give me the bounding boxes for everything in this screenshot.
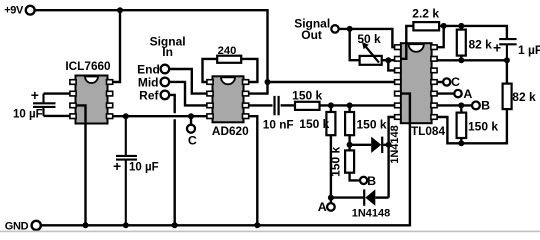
label U1 name ICL7660 (65, 59, 111, 73)
Mid terminal (161, 78, 170, 87)
Signal Out terminal (331, 25, 338, 32)
svg-text:C: C (188, 133, 197, 147)
junction GND at U1 pin3 wire (83, 222, 89, 228)
wire U1 pin 3 to ground (through body) (73, 105, 86, 225)
+9V terminal (26, 6, 35, 15)
wire R6 right along top to C4 (439, 26, 507, 38)
wire V- rail U1 pin 5 to U2 pin 4 (111, 115, 208, 117)
wire pot right to TL084 pin 2 (382, 59, 396, 61)
node B terminal (right) (472, 102, 480, 110)
wire node C stub (190, 116, 192, 124)
junction +9V at U2 (265, 79, 271, 85)
wire C4 node down to R8 (506, 60, 508, 83)
label VR1 value 50 k (357, 32, 381, 46)
svg-text:+9V: +9V (4, 5, 24, 17)
svg-text:150 k: 150 k (292, 88, 322, 102)
svg-text:1N4148: 1N4148 (352, 207, 391, 219)
wire R4 bottom lead (348, 135, 350, 145)
page separator line (0, 231, 540, 233)
wire pot output to TL084 pin 3 (388, 60, 396, 70)
svg-text:10 µF: 10 µF (129, 161, 159, 173)
label C2 plus (113, 158, 121, 174)
op-amp U1 ICL7660 body (76, 76, 108, 124)
U2 AD620 right pins 8-5 (243, 80, 249, 119)
wire Ref to ground (crosses V- rail) (169, 95, 175, 225)
svg-text:50 k: 50 k (357, 32, 381, 46)
svg-text:Ref: Ref (139, 88, 159, 102)
svg-text:TL084: TL084 (411, 124, 446, 138)
svg-text:150 k: 150 k (299, 117, 329, 131)
U3 TL084 left pins 1-7 (395, 45, 401, 119)
label node C (right) (451, 75, 460, 89)
label R8 value 82 k (512, 90, 536, 104)
wire drop to TL084 pin 14 (431, 26, 444, 47)
resistor R1 240 (217, 56, 241, 63)
resistor R4 150k vertical (345, 112, 354, 135)
svg-text:150 k: 150 k (468, 119, 498, 133)
wire C1 bottom plate to U1 pin 4 (44, 115, 73, 117)
wire R7 top lead (460, 26, 462, 30)
label node B (left) (367, 174, 376, 188)
svg-text:82 k: 82 k (512, 90, 536, 104)
wire R6 left lead to TL084 pin 2 (through body) (398, 26, 413, 59)
wire TL084 pin 13 rail (431, 59, 507, 61)
junction pin13 rail at R7 (458, 57, 464, 63)
wire +9V to U2 pin 7 (248, 82, 268, 94)
wire TL084 pin 10 to node A (431, 92, 454, 94)
junction GND at U2 pin 5 wire (254, 222, 260, 228)
junction rail at D1 (386, 142, 392, 148)
svg-text:A: A (318, 200, 327, 214)
junction V- rail at C2 (123, 113, 129, 119)
label C4 value 1 uF (518, 43, 540, 57)
label C2 value 10 uF (129, 161, 159, 173)
resistor R7 82k vertical (457, 30, 466, 56)
capacitor C2 10uF (116, 116, 137, 225)
wire Signal Out down to pot left (350, 29, 360, 60)
junction node B rail at R9 (458, 102, 464, 108)
label D2 value 1N4148 (horizontal) (352, 207, 391, 219)
junction top rail at U1 branch (117, 7, 123, 13)
resistor R6 2.2k (413, 22, 439, 30)
label C1 value 10 uF (13, 109, 43, 121)
label R9 value 150 k (468, 119, 498, 133)
svg-text:ICL7660: ICL7660 (65, 59, 111, 73)
wire R3 top lead (330, 105, 332, 112)
label D1 value 1N4148 (vertical) (389, 125, 401, 164)
diode D1 1N4148 (pointing right) (371, 137, 382, 153)
wire TL084 pin 7 down rail past D1 to D2 (389, 117, 396, 198)
wire D2 anode to rail (375, 196, 388, 198)
svg-text:240: 240 (218, 45, 237, 57)
diode D2 1N4148 (pointing left) (364, 189, 375, 205)
svg-text:GND: GND (5, 220, 29, 232)
label C3 value 10 nF (263, 118, 294, 132)
label node C (left) (188, 133, 197, 147)
GND terminal (32, 221, 41, 230)
junction V- rail at node C (188, 113, 194, 119)
capacitor C3 10nF (275, 96, 279, 115)
label R6 value 2.2 k (412, 7, 439, 21)
End terminal (161, 65, 170, 74)
wire End to U2 pin 2 (169, 69, 208, 94)
wire R9 bottom lead (460, 138, 462, 143)
wire R2 to TL084 pin 6 (320, 104, 397, 106)
op-amp U2 AD620 body (213, 76, 244, 122)
svg-text:In: In (162, 45, 173, 59)
wire R5 bottom to node B (350, 173, 361, 181)
resistor R5 150k vertical (345, 150, 354, 172)
svg-text:150 k: 150 k (328, 146, 342, 176)
wire C1 top plate to U1 pin 2 (44, 92, 73, 94)
svg-text:10 µF: 10 µF (13, 109, 43, 121)
svg-text:A: A (463, 87, 472, 101)
resistor R9 150k vertical (457, 113, 467, 138)
label Mid (138, 75, 159, 89)
label R7 value 82 k (469, 38, 493, 52)
wire R8 bottom around to TL084 pin 8 (431, 109, 507, 143)
capacitor C1 10uF (33, 94, 56, 116)
svg-text:B: B (367, 174, 376, 188)
svg-text:2.2 k: 2.2 k (412, 7, 439, 21)
wire +9V rail (35, 10, 268, 82)
junction signal rail at R3 (328, 102, 334, 108)
op-amp U3 TL084 body (401, 43, 432, 123)
wire U2 pin 6 output to C3 (248, 104, 273, 106)
label Signal In line 2 (162, 45, 173, 59)
node A terminal (left) (327, 203, 335, 211)
wire Signal Out to TL084 pin 1 (339, 29, 396, 47)
label +9V (4, 5, 24, 17)
U1 ICL7660 left pins 1-4 (70, 80, 76, 119)
svg-text:+: + (113, 158, 121, 174)
svg-text:Out: Out (301, 28, 322, 42)
U1 ICL7660 right pins 8-5 (107, 80, 113, 119)
wire R1 240 right lead to U2 pin 8 (241, 59, 257, 82)
wire GND rail and TL084 pin 5 ground (through body) (41, 94, 410, 226)
wire +9V branch to U1 pin 8 (110, 10, 120, 82)
svg-text:+: + (493, 40, 501, 56)
node B terminal (left) (360, 177, 367, 184)
Ref terminal (161, 91, 170, 100)
capacitor C4 1uF (499, 39, 516, 60)
label node A (left) (318, 200, 327, 214)
svg-text:Mid: Mid (138, 75, 159, 89)
label R4 value 150 k (357, 118, 387, 132)
label Ref (139, 88, 159, 102)
label R1 value 240 (218, 45, 237, 57)
node A terminal (right) (454, 90, 461, 97)
resistor R2 150k (295, 102, 320, 110)
wire D1 cathode to rail (383, 144, 388, 146)
svg-text:82 k: 82 k (469, 38, 493, 52)
resistor R3 150k vertical (326, 112, 335, 135)
svg-text:B: B (481, 99, 490, 113)
junction signal rail at R4 (347, 102, 353, 108)
wire node A stub (330, 198, 332, 204)
label Signal In line 1 (150, 35, 186, 49)
node C terminal (left) (187, 125, 195, 133)
resistor R8 82k vertical (503, 84, 512, 110)
junction pin13 rail at C4 (504, 57, 510, 63)
label U2 name AD620 (212, 124, 249, 138)
svg-text:1 µF: 1 µF (518, 43, 540, 57)
wire Mid to U2 pin 3 (169, 82, 208, 106)
junction top at pin14 drop (441, 23, 447, 29)
label Signal Out line 1 (294, 16, 330, 30)
label R3 value 150 k (299, 117, 329, 131)
wire R9 top lead (460, 105, 462, 112)
label R2 value 150 k (292, 88, 322, 102)
node C terminal (right) (443, 78, 450, 85)
wire TL084 pin 11 to node C (431, 81, 443, 83)
junction R4 D1 R5 (347, 142, 353, 148)
svg-text:C: C (451, 75, 460, 89)
svg-text:AD620: AD620 (212, 124, 249, 138)
wire R4 top lead (348, 105, 350, 112)
label C1 plus (31, 87, 39, 103)
svg-text:150 k: 150 k (357, 118, 387, 132)
U3 TL084 right pins 14-8 (431, 45, 437, 119)
svg-text:+: + (31, 87, 39, 103)
label C4 plus (493, 40, 501, 56)
potentiometer VR1 50k body (360, 56, 382, 65)
wire +9V to TL084 pin 4 (268, 81, 397, 83)
junction GND at Ref wire (172, 222, 178, 228)
label node A (right) (463, 87, 472, 101)
wire U2 pin 5 to ground (248, 116, 257, 225)
wire C3 to R2 (281, 104, 295, 106)
svg-text:End: End (137, 62, 160, 76)
svg-text:10 nF: 10 nF (263, 118, 294, 132)
wire node A to D2 cathode (331, 196, 364, 198)
U2 AD620 left pins 1-4 (207, 80, 213, 119)
wire R1 240 left lead to U2 pin 1 (203, 59, 218, 82)
label U3 name TL084 (411, 124, 446, 138)
wire R3 bottom to node A corner (330, 135, 332, 197)
label node B (right) (481, 99, 490, 113)
label R5 value 150 k (vertical) (328, 146, 342, 176)
junction bottom rail at R9 (458, 140, 464, 146)
label End (137, 62, 160, 76)
junction top at R7 (458, 23, 464, 29)
label Signal Out line 2 (301, 28, 322, 42)
junction pot output (385, 57, 391, 63)
wire R5 top lead (348, 145, 350, 151)
junction Signal Out (347, 26, 353, 32)
wire to D1 anode (350, 144, 372, 146)
junction GND at C2 (123, 222, 129, 228)
junction node A (328, 195, 334, 201)
wire TL084 pin 9 to node B (431, 104, 472, 106)
label GND (5, 220, 29, 232)
wire R7 bottom lead (460, 56, 462, 61)
potentiometer VR1 wiper arrow (362, 42, 379, 63)
